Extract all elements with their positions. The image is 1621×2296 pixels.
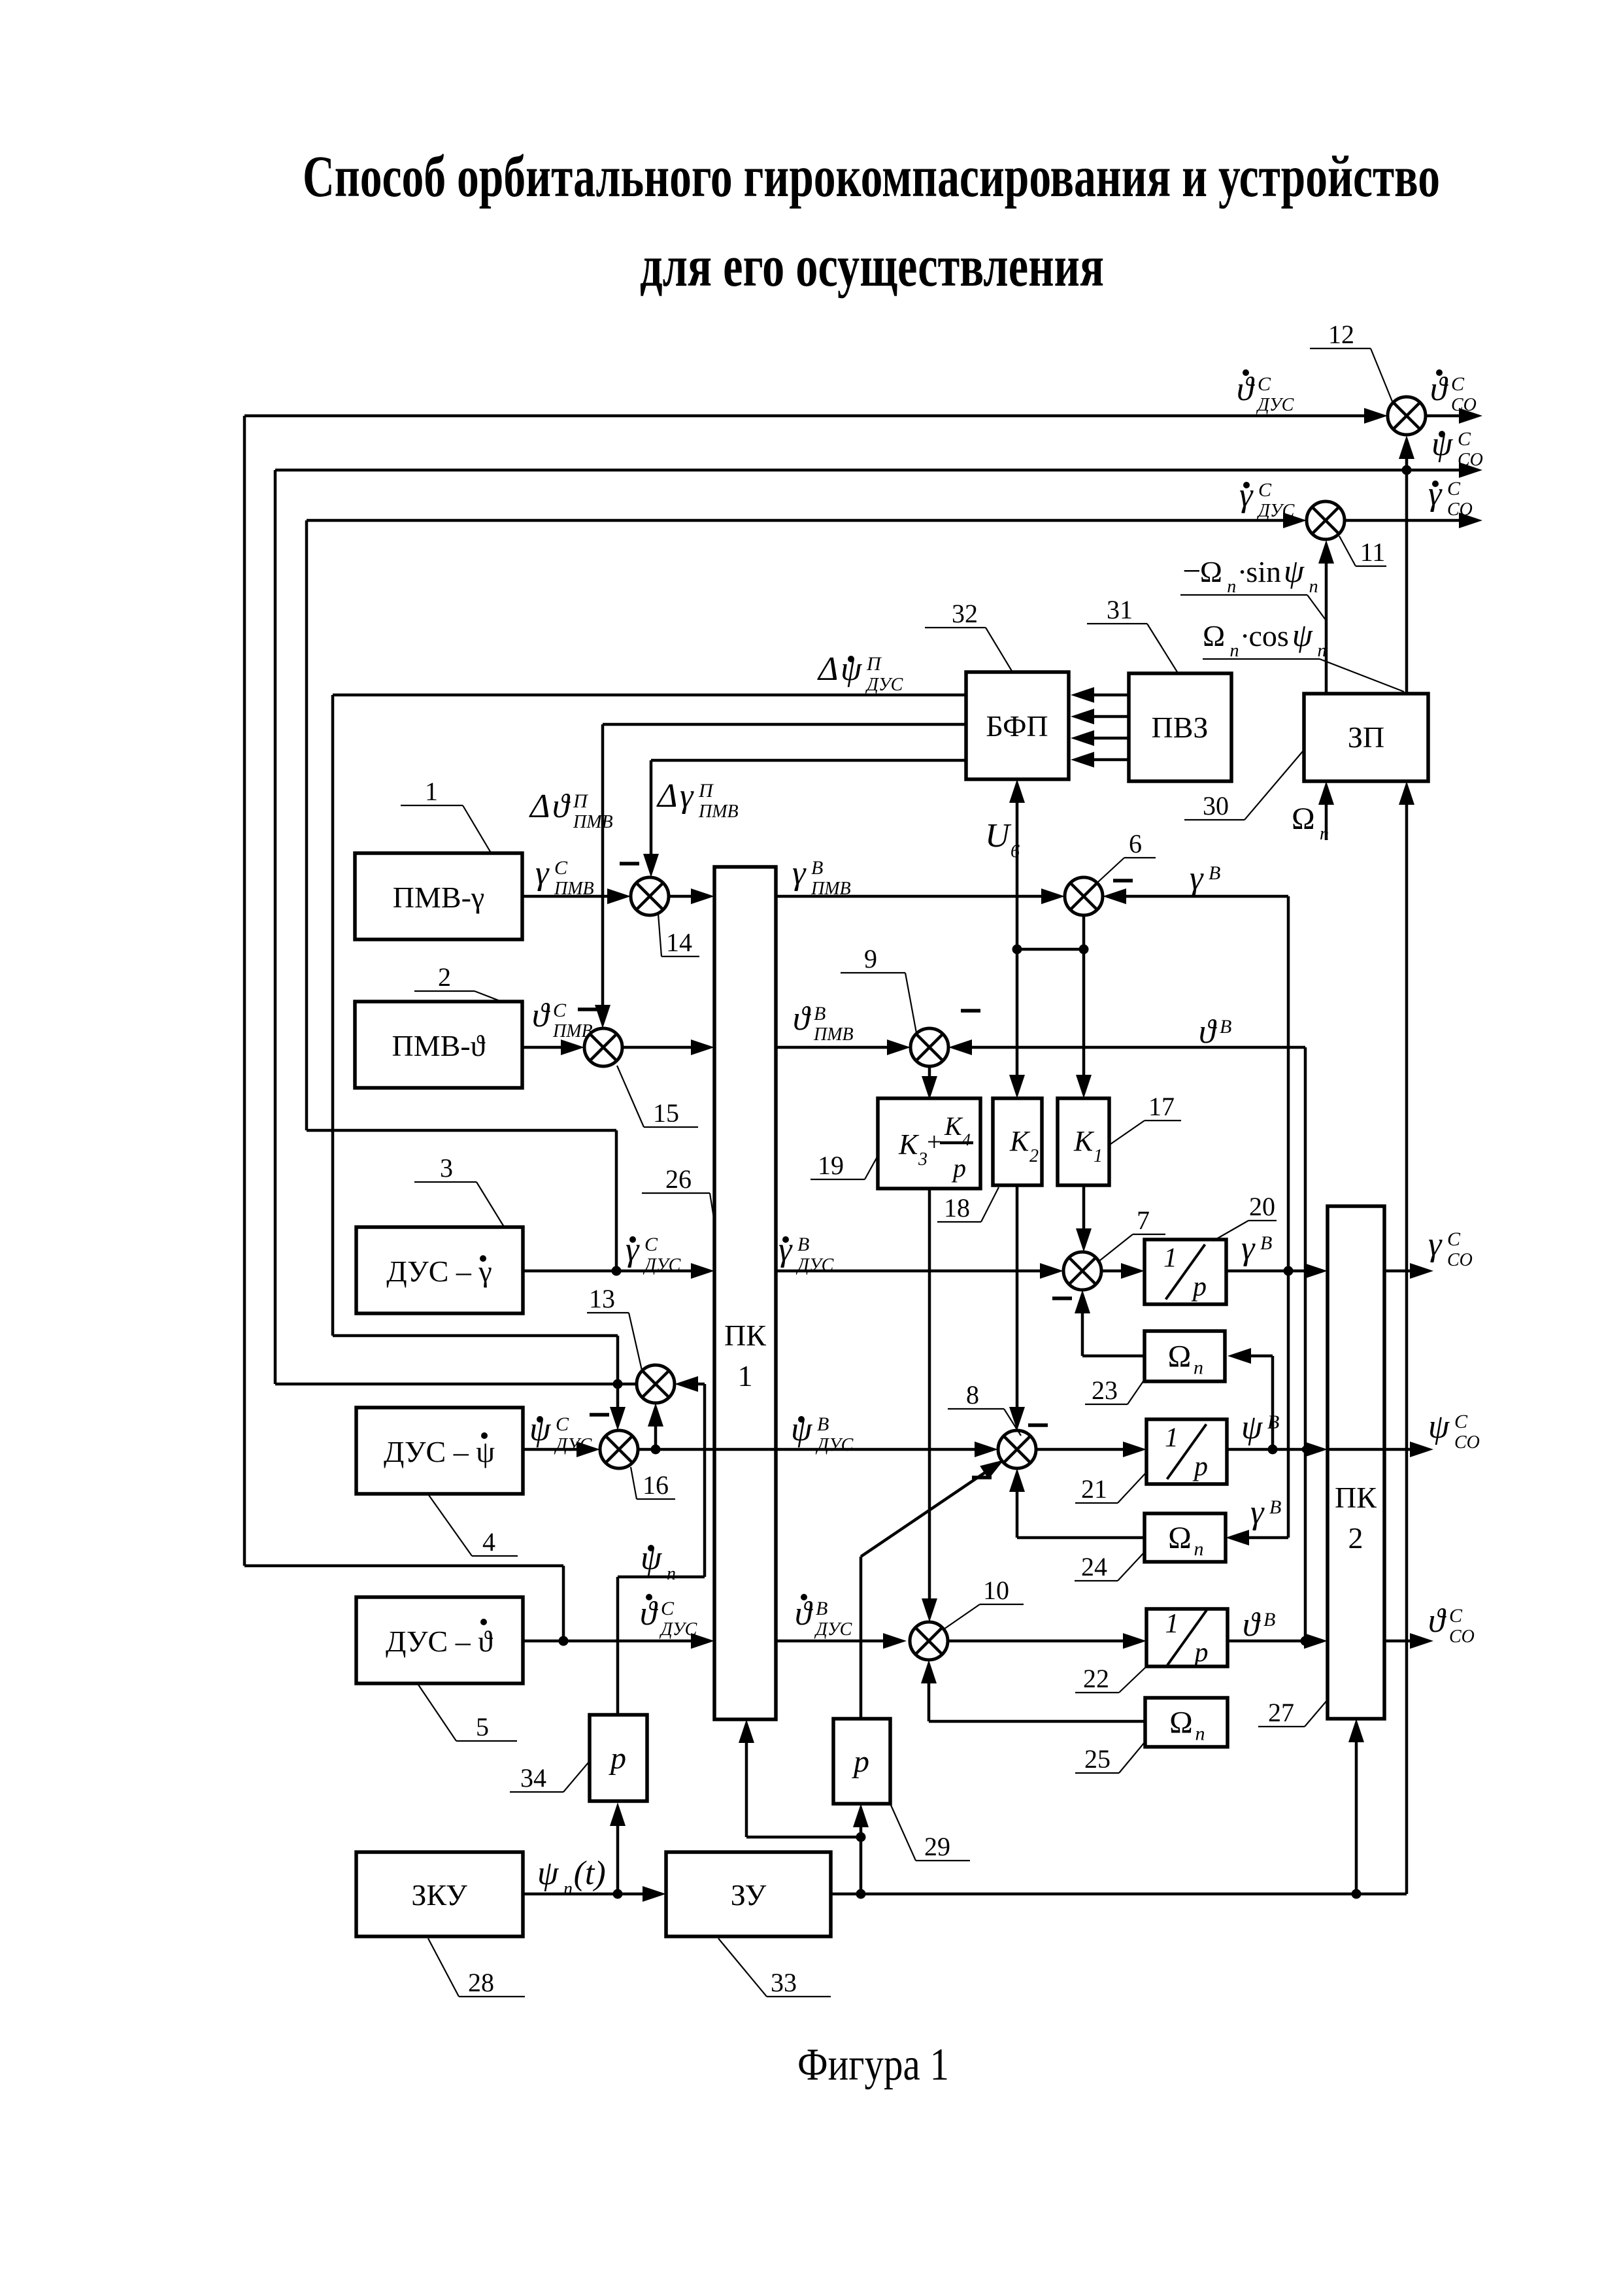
- svg-text:Ω: Ω: [1168, 1340, 1192, 1374]
- svg-text:п: п: [1195, 1723, 1205, 1745]
- svg-text:2: 2: [1029, 1146, 1039, 1166]
- svg-text:C: C: [1454, 1411, 1468, 1432]
- svg-text:Ω: Ω: [1168, 1521, 1192, 1555]
- svg-text:ДУС: ДУС: [815, 1435, 854, 1455]
- svg-text:19: 19: [818, 1151, 844, 1180]
- svg-text:СО: СО: [1447, 1250, 1473, 1270]
- svg-text:30: 30: [1203, 791, 1229, 820]
- svg-text:ψ: ψ: [1241, 1409, 1263, 1446]
- svg-text:К: К: [1073, 1125, 1095, 1157]
- svg-text:ДУС: ДУС: [659, 1619, 697, 1640]
- svg-text:γ: γ: [535, 854, 550, 892]
- svg-text:B: B: [1260, 1232, 1272, 1254]
- svg-text:ПМВ: ПМВ: [552, 1021, 593, 1041]
- svg-text:ЗУ: ЗУ: [731, 1878, 767, 1912]
- svg-text:C: C: [1449, 1605, 1463, 1627]
- svg-text:B: B: [1263, 1609, 1275, 1630]
- svg-text:20: 20: [1249, 1192, 1275, 1221]
- svg-text:4: 4: [962, 1130, 971, 1149]
- svg-text:ϑ: ϑ: [1430, 371, 1448, 408]
- svg-text:ПМВ: ПМВ: [813, 1024, 854, 1045]
- svg-text:1: 1: [738, 1359, 753, 1393]
- svg-text:sin: sin: [1246, 555, 1281, 588]
- svg-text:27: 27: [1268, 1698, 1294, 1727]
- svg-text:B: B: [816, 1598, 827, 1619]
- svg-text:ДУС – γ: ДУС – γ: [386, 1255, 492, 1288]
- svg-text:ϑ: ϑ: [1237, 371, 1255, 408]
- svg-text:p: p: [852, 1744, 869, 1779]
- svg-text:п: п: [667, 1564, 676, 1584]
- svg-text:ДУС – ψ: ДУС – ψ: [384, 1435, 495, 1468]
- svg-text:cos: cos: [1249, 619, 1289, 652]
- svg-text:п: п: [1194, 1538, 1204, 1560]
- svg-text:ϑ: ϑ: [1199, 1013, 1217, 1051]
- svg-text:п: п: [1194, 1357, 1203, 1379]
- svg-text:ϑ: ϑ: [552, 788, 571, 825]
- svg-text:СО: СО: [1451, 395, 1477, 415]
- svg-text:П: П: [573, 790, 589, 812]
- svg-text:п: п: [1320, 824, 1329, 844]
- svg-text:СО: СО: [1447, 499, 1473, 520]
- svg-text:B: B: [797, 1234, 809, 1255]
- svg-text:γ: γ: [792, 854, 807, 892]
- svg-text:C: C: [1258, 479, 1272, 501]
- svg-text:П: П: [866, 653, 882, 675]
- svg-text:ϑ: ϑ: [795, 1595, 813, 1632]
- svg-text:Ω: Ω: [1200, 555, 1222, 588]
- svg-text:B: B: [1269, 1496, 1281, 1518]
- svg-text:ψ: ψ: [537, 1855, 560, 1892]
- svg-text:12: 12: [1328, 320, 1354, 349]
- svg-text:СО: СО: [1449, 1627, 1475, 1647]
- svg-text:ПМВ: ПМВ: [698, 802, 739, 822]
- svg-text:8: 8: [966, 1380, 979, 1410]
- svg-text:К: К: [1009, 1125, 1031, 1157]
- svg-text:Δ: Δ: [656, 777, 678, 815]
- svg-text:18: 18: [944, 1193, 970, 1223]
- svg-text:п: п: [1317, 641, 1326, 661]
- svg-text:1: 1: [1094, 1146, 1103, 1166]
- svg-text:ψ: ψ: [1292, 616, 1313, 653]
- svg-text:п: п: [1227, 577, 1236, 597]
- svg-text:6: 6: [1011, 841, 1020, 862]
- svg-text:γ: γ: [1241, 1230, 1256, 1267]
- svg-text:3: 3: [918, 1149, 927, 1170]
- svg-text:C: C: [1447, 1228, 1461, 1250]
- svg-text:25: 25: [1084, 1744, 1111, 1774]
- svg-text:34: 34: [520, 1763, 546, 1793]
- svg-text:1: 1: [1163, 1243, 1177, 1274]
- svg-text:24: 24: [1081, 1552, 1107, 1581]
- svg-text:ДУС: ДУС: [554, 1435, 592, 1455]
- svg-text:17: 17: [1148, 1092, 1175, 1121]
- svg-text:+: +: [927, 1127, 942, 1156]
- svg-text:Способ орбитального гирокомпас: Способ орбитального гирокомпасирования и…: [303, 144, 1440, 209]
- svg-text:γ: γ: [680, 777, 694, 815]
- svg-text:p: p: [1193, 1638, 1209, 1668]
- svg-text:ПМВ-ϑ: ПМВ-ϑ: [392, 1029, 486, 1062]
- svg-text:ДУС: ДУС: [643, 1255, 681, 1275]
- svg-text:33: 33: [771, 1968, 797, 1997]
- svg-text:5: 5: [476, 1712, 489, 1742]
- svg-text:21: 21: [1081, 1474, 1107, 1504]
- svg-text:1: 1: [1165, 1609, 1179, 1639]
- svg-text:ПК: ПК: [724, 1319, 766, 1352]
- svg-text:16: 16: [643, 1470, 669, 1500]
- svg-text:2: 2: [1348, 1521, 1363, 1555]
- svg-text:10: 10: [983, 1576, 1009, 1605]
- svg-text:C: C: [1258, 373, 1271, 395]
- svg-text:ϑ: ϑ: [793, 1000, 811, 1038]
- svg-text:ϑ: ϑ: [1243, 1606, 1261, 1644]
- svg-text:29: 29: [924, 1832, 950, 1861]
- svg-text:2: 2: [438, 962, 451, 992]
- svg-text:B: B: [1220, 1016, 1231, 1038]
- svg-text:ϑ: ϑ: [532, 997, 550, 1034]
- svg-text:ДУС: ДУС: [814, 1619, 852, 1640]
- svg-text:C: C: [644, 1234, 658, 1255]
- svg-text:ПВЗ: ПВЗ: [1152, 711, 1209, 744]
- svg-text:ψ: ψ: [1284, 552, 1305, 589]
- svg-text:C: C: [1451, 373, 1465, 395]
- svg-text:26: 26: [665, 1164, 692, 1194]
- svg-text:ЗКУ: ЗКУ: [411, 1878, 467, 1912]
- svg-text:B: B: [814, 1003, 826, 1024]
- svg-text:C: C: [1458, 428, 1471, 450]
- svg-text:22: 22: [1083, 1664, 1109, 1693]
- svg-text:Ω: Ω: [1203, 619, 1225, 652]
- svg-text:32: 32: [952, 599, 978, 628]
- svg-text:B: B: [817, 1413, 829, 1435]
- svg-text:p: p: [1192, 1452, 1208, 1482]
- svg-text:Фигура 1: Фигура 1: [797, 2040, 949, 2090]
- svg-text:B: B: [1267, 1411, 1279, 1433]
- svg-text:п: п: [1309, 577, 1318, 597]
- svg-text:ψ: ψ: [1428, 1408, 1450, 1445]
- svg-text:15: 15: [653, 1098, 679, 1128]
- svg-text:ДУС: ДУС: [795, 1255, 834, 1275]
- svg-text:B: B: [1209, 862, 1220, 884]
- svg-text:К: К: [898, 1128, 920, 1160]
- svg-text:p: p: [951, 1153, 966, 1183]
- svg-text:C: C: [554, 857, 568, 879]
- svg-text:13: 13: [589, 1284, 615, 1313]
- svg-text:9: 9: [864, 944, 877, 973]
- svg-text:4: 4: [482, 1527, 495, 1557]
- svg-text:11: 11: [1360, 537, 1386, 567]
- svg-text:ЗП: ЗП: [1348, 720, 1384, 754]
- svg-text:28: 28: [468, 1968, 494, 1997]
- svg-text:СО: СО: [1458, 450, 1483, 470]
- svg-text:СО: СО: [1454, 1432, 1480, 1453]
- svg-text:B: B: [811, 857, 823, 879]
- svg-text:γ: γ: [1190, 860, 1204, 897]
- svg-text:ДУС: ДУС: [1256, 501, 1295, 521]
- svg-text:ДУС – ϑ: ДУС – ϑ: [386, 1625, 493, 1658]
- svg-text:БФП: БФП: [986, 709, 1048, 743]
- svg-text:П: П: [698, 780, 714, 802]
- svg-text:ПМВ-γ: ПМВ-γ: [393, 881, 484, 914]
- svg-text:γ: γ: [1250, 1494, 1265, 1531]
- svg-text:p: p: [609, 1741, 626, 1776]
- svg-text:ПМВ: ПМВ: [811, 879, 851, 899]
- svg-text:ϑ: ϑ: [1428, 1602, 1446, 1640]
- svg-text:Ω: Ω: [1169, 1706, 1193, 1740]
- svg-text:7: 7: [1137, 1206, 1150, 1235]
- svg-text:ДУС: ДУС: [1256, 395, 1294, 415]
- svg-text:К: К: [944, 1111, 963, 1141]
- svg-text:U: U: [985, 817, 1012, 854]
- svg-text:γ: γ: [1428, 1226, 1443, 1263]
- svg-text:(t): (t): [574, 1855, 606, 1892]
- svg-text:п: п: [563, 1879, 573, 1899]
- svg-text:п: п: [1229, 641, 1239, 661]
- svg-text:p: p: [1191, 1272, 1207, 1302]
- svg-text:для его осуществления: для его осуществления: [640, 234, 1104, 299]
- svg-text:C: C: [1447, 478, 1461, 499]
- svg-text:23: 23: [1092, 1376, 1118, 1405]
- svg-text:ПК: ПК: [1335, 1481, 1377, 1514]
- svg-text:ПМВ: ПМВ: [573, 812, 613, 832]
- svg-text:C: C: [661, 1598, 675, 1619]
- svg-text:1: 1: [425, 777, 438, 806]
- svg-text:31: 31: [1107, 595, 1133, 624]
- svg-text:−: −: [1180, 552, 1203, 589]
- svg-text:Ω: Ω: [1292, 802, 1315, 836]
- svg-text:Δ: Δ: [529, 788, 550, 825]
- svg-text:ДУС: ДУС: [865, 675, 903, 695]
- svg-text:1: 1: [1165, 1423, 1178, 1453]
- svg-text:C: C: [553, 1000, 567, 1021]
- svg-text:14: 14: [666, 928, 692, 957]
- svg-text:C: C: [556, 1413, 569, 1435]
- svg-text:6: 6: [1129, 829, 1142, 858]
- svg-text:ϑ: ϑ: [640, 1595, 658, 1632]
- svg-text:3: 3: [440, 1153, 453, 1183]
- svg-text:ПМВ: ПМВ: [554, 879, 594, 899]
- svg-text:Δ: Δ: [817, 650, 839, 688]
